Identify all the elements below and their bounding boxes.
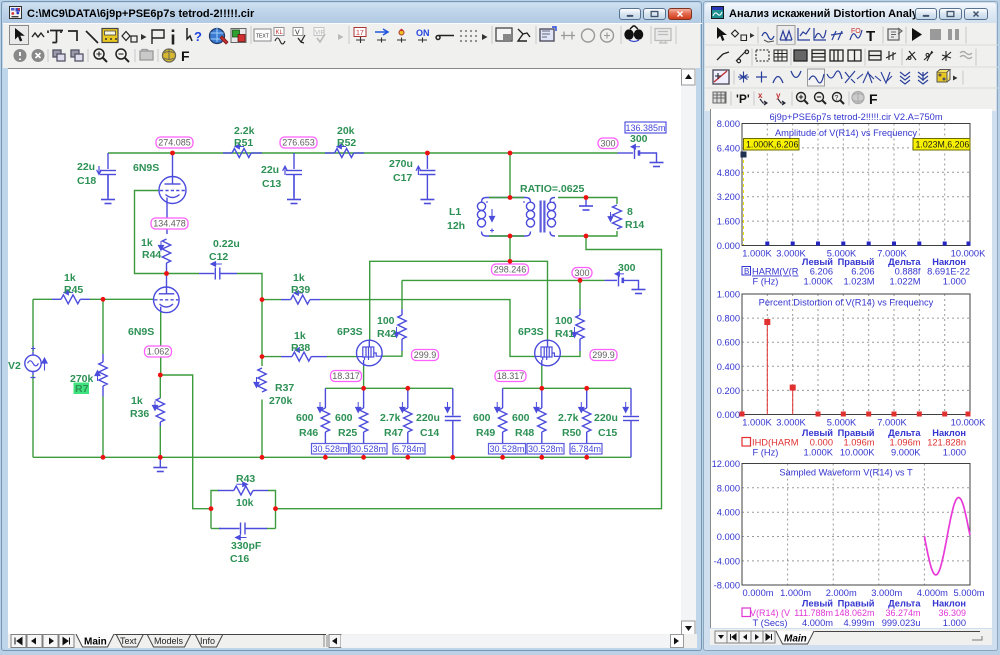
svg-text:30.528m: 30.528m <box>528 444 563 454</box>
svg-text:Левый: Левый <box>802 428 833 438</box>
svg-text:R41: R41 <box>555 328 574 340</box>
node label 300 oval <box>598 138 618 149</box>
svg-text:10k: 10k <box>236 497 254 509</box>
resistor R51 2.2k <box>223 144 262 157</box>
svg-text:136.385m: 136.385m <box>625 123 665 133</box>
svg-text:999.023u: 999.023u <box>882 618 921 628</box>
plot1 x labels <box>742 249 986 259</box>
wire right cathode net top <box>503 387 631 389</box>
svg-text:C14: C14 <box>420 427 439 439</box>
svg-text:10.000K: 10.000K <box>951 418 986 428</box>
op point box 134.478 <box>151 218 188 229</box>
wire R7 branch <box>102 299 104 354</box>
svg-text:Наклон: Наклон <box>932 257 966 267</box>
wire R39 grid row to right tube <box>262 299 281 301</box>
resistor R48 600 <box>534 388 546 457</box>
svg-text:4.000m: 4.000m <box>802 618 833 628</box>
svg-text:5.000K: 5.000K <box>827 418 857 428</box>
svg-text:0.600: 0.600 <box>717 338 740 348</box>
svg-text:HARM(V(R: HARM(V(R <box>752 267 799 277</box>
svg-text:0.888f: 0.888f <box>895 267 921 277</box>
pentode U2 6P3S left <box>357 340 383 366</box>
svg-text:299.9: 299.9 <box>592 350 615 360</box>
svg-text:270u: 270u <box>389 158 413 170</box>
svg-text:0.800: 0.800 <box>717 314 740 324</box>
svg-text:6.400: 6.400 <box>717 143 740 153</box>
svg-text:F (Hz): F (Hz) <box>753 277 779 287</box>
svg-text:1.023M: 1.023M <box>843 277 874 287</box>
svg-text:RATIO=.0625: RATIO=.0625 <box>520 183 584 195</box>
svg-text:FO: FO <box>851 28 861 35</box>
battery V3 300 top right <box>618 145 657 163</box>
svg-text:18.317: 18.317 <box>497 371 525 381</box>
svg-text:R50: R50 <box>562 427 581 439</box>
svg-text:30.528m: 30.528m <box>489 444 524 454</box>
resistor R46 600 <box>317 388 329 457</box>
triode U1b 6N9S lower <box>154 274 180 313</box>
svg-text:C18: C18 <box>77 175 96 187</box>
svg-text:KL: KL <box>276 30 284 36</box>
svg-text:0.000: 0.000 <box>717 241 740 251</box>
svg-text:4.000: 4.000 <box>717 508 740 518</box>
cursor tag 1.000K,6.206 <box>744 139 800 151</box>
svg-text:8.691E-22: 8.691E-22 <box>927 267 970 277</box>
svg-text:100: 100 <box>555 315 573 327</box>
wire tube V1a grid feedback <box>135 191 167 274</box>
svg-text:1.000: 1.000 <box>943 277 966 287</box>
svg-text:Percent Distortion of V(R14) v: Percent Distortion of V(R14) vs Frequenc… <box>759 298 934 308</box>
resistor R14 8 ohm load <box>608 205 621 229</box>
svg-text:2.7k: 2.7k <box>558 412 579 424</box>
svg-text:6.784m: 6.784m <box>571 444 601 454</box>
svg-text:1.000K: 1.000K <box>804 448 834 458</box>
svg-text:0.000: 0.000 <box>717 532 740 542</box>
svg-text:R37: R37 <box>275 382 294 394</box>
capacitor C14 220u <box>445 388 461 457</box>
plot1 data markers <box>741 152 971 246</box>
resistor R45 1k <box>52 290 90 304</box>
resistor R25 600 <box>356 388 368 457</box>
svg-text:R46: R46 <box>299 427 318 439</box>
current box 30.528m left2 <box>350 444 387 455</box>
plot2 y labels <box>717 290 740 421</box>
svg-text:Наклон: Наклон <box>932 599 966 609</box>
svg-text:4.999m: 4.999m <box>843 618 874 628</box>
svg-text:Models: Models <box>154 636 184 646</box>
svg-text:22u: 22u <box>77 161 95 173</box>
current box 6.784m left <box>393 444 425 455</box>
svg-text:0.400: 0.400 <box>717 362 740 372</box>
svg-text:0.200: 0.200 <box>717 386 740 396</box>
table2 row IHD <box>742 438 751 447</box>
wire transformer secondary bottom <box>558 231 617 236</box>
label R7 highlighted <box>74 383 90 395</box>
op point box 274.085 <box>156 137 193 148</box>
svg-text:6P3S: 6P3S <box>518 326 544 338</box>
selected text box 136.385m <box>625 122 666 133</box>
svg-text:R25: R25 <box>338 427 357 439</box>
svg-text:R7: R7 <box>75 383 89 395</box>
svg-text:1k: 1k <box>294 330 306 342</box>
transformer core <box>540 201 546 233</box>
svg-text:300: 300 <box>600 138 615 148</box>
svg-text:B: B <box>744 267 749 276</box>
svg-text:4.800: 4.800 <box>717 168 740 178</box>
svg-text:600: 600 <box>296 412 314 424</box>
svg-text:Левый: Левый <box>802 257 833 267</box>
svg-text:Правый: Правый <box>838 599 875 609</box>
cursor tag 1.023M,6.206 <box>913 139 970 151</box>
svg-text:IHD(HARM: IHD(HARM <box>752 438 798 448</box>
svg-text:276.653: 276.653 <box>282 138 315 148</box>
svg-text:2.000m: 2.000m <box>826 588 857 598</box>
svg-text:600: 600 <box>473 412 491 424</box>
svg-text:8.000: 8.000 <box>717 483 740 493</box>
wire left cathode pin <box>363 366 365 388</box>
current box 30.528m right2 <box>527 444 564 455</box>
transformer secondary winding <box>547 198 555 237</box>
plot3 grid <box>742 464 970 586</box>
source V2 sine <box>25 346 47 377</box>
svg-text:F: F <box>181 48 190 64</box>
capacitor C15 220u <box>623 388 639 457</box>
svg-text:330pF: 330pF <box>231 540 262 552</box>
node label 300 oval screen <box>572 268 592 279</box>
wire R36 branch <box>159 375 161 398</box>
svg-text:Наклон: Наклон <box>932 428 966 438</box>
svg-text:2.2k: 2.2k <box>234 125 255 137</box>
op point box 299.9 left <box>412 350 439 361</box>
svg-text:x: x <box>758 91 763 100</box>
svg-text:Sampled Waveform V(R14) vs T: Sampled Waveform V(R14) vs T <box>779 468 913 478</box>
svg-text:1k: 1k <box>293 272 305 284</box>
svg-text:6N9S: 6N9S <box>128 326 154 338</box>
svg-text:Левый: Левый <box>802 599 833 609</box>
svg-text:3.200: 3.200 <box>717 192 740 202</box>
wire left cathode net top <box>325 387 452 389</box>
svg-text:300: 300 <box>630 133 648 145</box>
svg-text:Правый: Правый <box>838 428 875 438</box>
svg-text:22u: 22u <box>261 164 279 176</box>
svg-text:1.000: 1.000 <box>717 290 740 300</box>
svg-text:5.000m: 5.000m <box>953 588 984 598</box>
svg-text:-8.000: -8.000 <box>714 581 740 591</box>
current box 30.528m right1 <box>489 444 526 455</box>
resistor R52 20k <box>325 144 364 157</box>
wire transformer secondary top <box>558 198 617 205</box>
svg-text:1.000: 1.000 <box>943 618 966 628</box>
resistor R36 1k <box>152 398 164 426</box>
svg-text:8.000: 8.000 <box>717 119 740 129</box>
svg-text:R52: R52 <box>337 137 356 149</box>
svg-text:1.062: 1.062 <box>147 347 170 357</box>
resistor R38 1k <box>281 348 327 361</box>
svg-text:R38: R38 <box>291 342 310 354</box>
transformer L1 primary loop <box>477 198 534 237</box>
svg-text:1.096m: 1.096m <box>889 438 920 448</box>
wire R37 branch <box>261 300 263 366</box>
svg-text:0.000: 0.000 <box>810 438 833 448</box>
resistor R49 600 <box>495 388 507 457</box>
svg-text:Text: Text <box>120 636 137 646</box>
svg-text:1k: 1k <box>131 395 143 407</box>
svg-text:C16: C16 <box>230 553 249 565</box>
svg-text:R47: R47 <box>384 427 403 439</box>
svg-text:y: y <box>776 91 781 100</box>
svg-text:C13: C13 <box>262 178 281 190</box>
svg-text:Main: Main <box>84 637 107 648</box>
plot2 distortion stems <box>740 319 971 417</box>
svg-text:300: 300 <box>618 262 636 274</box>
svg-text:600: 600 <box>335 412 353 424</box>
svg-text:T: T <box>866 28 875 45</box>
svg-text:Дельта: Дельта <box>888 257 921 267</box>
ground below C17 <box>420 200 434 204</box>
svg-text:1.022M: 1.022M <box>889 277 920 287</box>
wire R43 C16 loop <box>211 491 219 529</box>
svg-text:1.000K: 1.000K <box>742 249 772 259</box>
svg-text:R42: R42 <box>377 328 396 340</box>
wire right cathode pin <box>541 366 543 388</box>
svg-text:0.000: 0.000 <box>717 410 740 420</box>
svg-text:1.000: 1.000 <box>943 448 966 458</box>
table3 header <box>802 599 966 609</box>
plot2 grid <box>742 294 970 415</box>
svg-text:1.023M,6.206: 1.023M,6.206 <box>916 139 970 149</box>
svg-text:1.000K: 1.000K <box>804 277 834 287</box>
svg-text:36.274m: 36.274m <box>885 608 920 618</box>
svg-text:F (Hz): F (Hz) <box>753 448 779 458</box>
svg-text:134.478: 134.478 <box>153 219 186 229</box>
svg-text:Дельта: Дельта <box>888 599 921 609</box>
svg-text:?: ? <box>835 95 839 102</box>
svg-text:F: F <box>869 91 878 107</box>
svg-text:36.309: 36.309 <box>938 608 966 618</box>
svg-text:3.000K: 3.000K <box>776 418 806 428</box>
svg-text:220u: 220u <box>416 412 440 424</box>
svg-text:R36: R36 <box>130 408 149 420</box>
svg-text:L1: L1 <box>449 206 461 218</box>
ground on secondary top <box>579 198 593 211</box>
wire transformer primary bottom segment <box>489 235 524 237</box>
plot3 waveform V(R14) <box>924 497 970 575</box>
table3 row V(R14) <box>742 608 751 617</box>
capacitor C18 <box>97 153 116 197</box>
resistor R39 1k <box>281 291 320 304</box>
plot1 y labels <box>717 119 740 251</box>
svg-text:220u: 220u <box>594 412 618 424</box>
svg-text:121.828n: 121.828n <box>927 438 966 448</box>
wire R42 screen branch <box>401 280 403 309</box>
svg-text:TEXT: TEXT <box>256 34 269 40</box>
svg-text:4.000m: 4.000m <box>917 588 948 598</box>
table1 header <box>802 257 966 267</box>
svg-text:600: 600 <box>512 412 530 424</box>
plot3 x labels <box>742 588 984 598</box>
wire right 6P3S plate feed <box>510 261 548 342</box>
wire transformer primary feed <box>509 153 511 198</box>
svg-text:Правый: Правый <box>838 257 875 267</box>
svg-text:Main: Main <box>784 634 807 645</box>
op point box 276.653 <box>280 137 317 148</box>
wire left 6P3S plate feed <box>370 236 510 341</box>
capacitor C16 330pF feedback <box>219 523 267 540</box>
svg-text:'P': 'P' <box>736 92 750 106</box>
svg-text:C17: C17 <box>393 172 412 184</box>
table1 row HARM <box>742 267 751 276</box>
svg-text:1.000K,6.206: 1.000K,6.206 <box>746 139 798 149</box>
svg-text:C12: C12 <box>209 251 228 263</box>
left MDI child window: schematic editor <box>1 1 702 651</box>
resistor R44 1k <box>158 239 170 274</box>
wire C12 coupling row <box>167 273 200 275</box>
svg-text:V(R14) (V: V(R14) (V <box>750 608 790 618</box>
svg-text:10.000K: 10.000K <box>840 448 875 458</box>
svg-text:6j9p+PSE6p7s tetrod-2!!!!!.cir: 6j9p+PSE6p7s tetrod-2!!!!!.cir V2.A=750m <box>769 112 942 122</box>
svg-text:V2: V2 <box>8 360 21 372</box>
current box 30.528m left1 <box>312 444 349 455</box>
svg-text:R48: R48 <box>515 427 534 439</box>
svg-text:9.000K: 9.000K <box>891 448 921 458</box>
svg-text:V: V <box>295 30 300 37</box>
svg-text:0.000m: 0.000m <box>742 588 773 598</box>
capacitor C17 <box>416 153 435 199</box>
capacitor C13 <box>283 153 302 197</box>
plot1 frame <box>742 124 970 246</box>
svg-text:R44: R44 <box>142 249 161 261</box>
op point box 298.246 <box>492 264 529 275</box>
svg-text:R43: R43 <box>236 473 255 485</box>
svg-text:R39: R39 <box>291 284 310 296</box>
right MDI child window: Distortion Analysis <box>703 1 998 651</box>
svg-text:1.000K: 1.000K <box>742 418 772 428</box>
svg-text:Amplitude of V(R14) vs Frequen: Amplitude of V(R14) vs Frequency <box>775 128 917 138</box>
wire feedback tap to R43 network <box>160 375 211 509</box>
resistor R41 100 <box>572 309 584 351</box>
ground below C13 <box>287 175 301 204</box>
svg-text:20k: 20k <box>337 125 355 137</box>
op point box 18.317 left <box>331 371 362 382</box>
current box 6.784m right <box>570 444 602 455</box>
svg-text:1k: 1k <box>64 272 76 284</box>
svg-text:R51: R51 <box>234 137 253 149</box>
wire top B+ rail <box>108 152 618 154</box>
svg-text:17: 17 <box>356 30 364 37</box>
resistor R7 270k <box>95 354 107 397</box>
triode U1a 6N9S upper <box>159 153 186 234</box>
svg-text:298.246: 298.246 <box>494 265 527 275</box>
wire screen supply row <box>402 279 605 281</box>
svg-text:?: ? <box>194 29 202 44</box>
svg-text:R14: R14 <box>625 219 644 231</box>
resistor R42 100 <box>394 309 406 351</box>
svg-text:8: 8 <box>627 206 633 218</box>
svg-text:C15: C15 <box>598 427 617 439</box>
plot1 cursor dashed line <box>743 154 745 245</box>
svg-text:T (Secs): T (Secs) <box>753 618 788 628</box>
wire input row R45 <box>33 298 52 300</box>
battery V4 300 screen supply <box>605 272 639 289</box>
svg-text:1k: 1k <box>141 237 153 249</box>
svg-text:Дельта: Дельта <box>888 428 921 438</box>
svg-text:1.000m: 1.000m <box>780 588 811 598</box>
svg-text:R49: R49 <box>476 427 495 439</box>
resistor R50 2.7k <box>579 388 591 457</box>
svg-text:111.788m: 111.788m <box>794 608 833 618</box>
wire R38 grid row <box>262 356 281 358</box>
ground below lower 6N9S cathode <box>153 457 167 471</box>
resistor R43 10k feedback <box>218 482 268 495</box>
pentode U3 6P3S right <box>535 340 561 366</box>
svg-text:6.784m: 6.784m <box>394 444 424 454</box>
plot3 y labels <box>712 459 740 591</box>
svg-text:2.7k: 2.7k <box>380 412 401 424</box>
table2 header <box>802 428 966 438</box>
svg-text:148.062m: 148.062m <box>834 608 874 618</box>
wire bottom ground rail <box>33 456 631 458</box>
svg-text:Info: Info <box>200 636 215 646</box>
wire secondary to feedback line <box>276 236 662 509</box>
svg-text:300: 300 <box>574 268 589 278</box>
svg-text:6.206: 6.206 <box>851 267 874 277</box>
ground below C18 <box>101 175 115 204</box>
wire tube V1b cathode down <box>160 311 162 375</box>
svg-text:12.000: 12.000 <box>712 459 740 469</box>
svg-text:1.096m: 1.096m <box>843 438 874 448</box>
svg-text:0.22u: 0.22u <box>213 238 240 250</box>
ground below battery V3 <box>650 163 664 167</box>
svg-text:30.528m: 30.528m <box>351 444 386 454</box>
svg-text:30.528m: 30.528m <box>312 444 347 454</box>
svg-text:299.9: 299.9 <box>414 350 437 360</box>
svg-text:274.085: 274.085 <box>158 138 191 148</box>
svg-text:R45: R45 <box>64 284 83 296</box>
svg-text:270k: 270k <box>269 395 293 407</box>
resistor R47 2.7k <box>400 388 412 457</box>
op point box 299.9 right <box>590 350 617 361</box>
svg-text:6P3S: 6P3S <box>337 326 363 338</box>
wire V2 branch <box>32 299 34 352</box>
svg-text:ON: ON <box>416 28 430 38</box>
plot2 x labels <box>742 418 986 428</box>
svg-text:6.206: 6.206 <box>810 267 833 277</box>
plot2 frame <box>742 294 970 415</box>
svg-text:-4.000: -4.000 <box>714 556 740 566</box>
resistor R37 270k <box>254 368 266 392</box>
svg-text:7.000K: 7.000K <box>877 418 907 428</box>
svg-text:100: 100 <box>377 315 395 327</box>
svg-text:1.600: 1.600 <box>717 217 740 227</box>
svg-text:18.317: 18.317 <box>332 371 360 381</box>
wire R41 screen branch <box>579 280 581 309</box>
svg-text:3.000m: 3.000m <box>871 588 902 598</box>
op point box 1.062 <box>145 346 172 357</box>
wire transformer primary top segment <box>489 197 524 199</box>
op point box 18.317 right <box>495 371 526 382</box>
ground below battery V4 <box>632 290 646 294</box>
svg-text:12h: 12h <box>447 220 465 232</box>
plot1 grid <box>742 124 970 246</box>
svg-text:6N9S: 6N9S <box>133 162 159 174</box>
plot3 frame <box>742 464 970 586</box>
capacitor C12 0.22u <box>199 262 237 280</box>
